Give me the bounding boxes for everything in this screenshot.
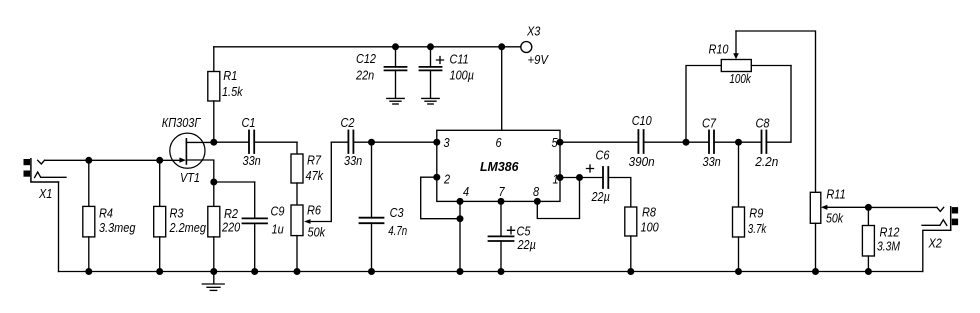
svg-text:C10: C10 [632, 113, 653, 128]
svg-text:2: 2 [443, 171, 451, 186]
node R4 top [85, 157, 92, 164]
node rail R4 [85, 268, 92, 275]
bottom ground rail [59, 271, 923, 273]
node rail R12 [865, 268, 872, 275]
svg-text:КП303Г: КП303Г [162, 115, 201, 130]
svg-text:R12: R12 [880, 224, 901, 239]
svg-text:22µ: 22µ [591, 189, 610, 204]
svg-text:33n: 33n [703, 154, 721, 169]
node C3 top [368, 139, 375, 146]
node rail R11 [812, 268, 819, 275]
svg-text:3.3meg: 3.3meg [99, 220, 136, 235]
node rail pin7 [498, 268, 505, 275]
svg-text:1u: 1u [272, 222, 284, 237]
svg-text:C7: C7 [702, 115, 717, 130]
node source [210, 179, 217, 186]
capacitor C6 [580, 165, 631, 207]
resistor R1 [208, 47, 220, 142]
node rail R9 [735, 268, 742, 275]
pin 7 [498, 198, 505, 205]
ground C11 [422, 98, 439, 104]
node R11 wiper [865, 204, 872, 211]
capacitor C1 [214, 131, 297, 154]
svg-text:6: 6 [496, 135, 503, 150]
capacitor C11 [420, 47, 444, 98]
potentiometer R11 [810, 192, 868, 271]
wire pin7 down [500, 201, 502, 236]
svg-text:R9: R9 [749, 205, 763, 220]
svg-text:5: 5 [552, 135, 559, 150]
potentiometer R10 [686, 31, 816, 192]
resistor R4 [83, 160, 95, 271]
potentiometer R6 [291, 142, 331, 271]
node B [735, 139, 742, 146]
connector X3 [521, 42, 532, 53]
capacitor C2 [331, 131, 437, 154]
node C12 top [392, 43, 399, 50]
transistor VT1 [170, 133, 214, 182]
resistor R9 [733, 142, 745, 271]
svg-text:R8: R8 [642, 205, 657, 220]
svg-text:1.5k: 1.5k [222, 84, 244, 99]
svg-text:R4: R4 [99, 206, 113, 221]
node rail R3 [156, 268, 163, 275]
node pin4/pin2 join [457, 215, 464, 222]
svg-text:C12: C12 [356, 51, 377, 66]
node C11 top [427, 43, 434, 50]
svg-text:220: 220 [221, 220, 241, 235]
capacitor C7 [686, 131, 739, 154]
svg-text:33n: 33n [243, 153, 261, 168]
svg-text:7: 7 [499, 184, 506, 199]
svg-text:R7: R7 [307, 153, 322, 168]
svg-text:2.2meg: 2.2meg [169, 220, 207, 235]
capacitor C3 [360, 142, 384, 271]
op-amp U1 LM386 [437, 130, 560, 201]
capacitor C8 [739, 66, 792, 154]
capacitor C12 [385, 47, 407, 98]
resistor R7 [291, 142, 303, 205]
wire pin6 riser [501, 47, 503, 131]
wire X1 ground riser [58, 182, 60, 272]
node rail R8 [627, 268, 634, 275]
svg-text:3.3M: 3.3M [877, 238, 900, 253]
svg-text:+9V: +9V [528, 52, 550, 67]
wire pin4 down [459, 201, 461, 271]
node C6 left [576, 174, 583, 181]
svg-text:1: 1 [553, 171, 559, 186]
capacitor C9 [243, 182, 268, 272]
connector X2 [868, 207, 958, 272]
svg-text:LM386: LM386 [480, 159, 519, 174]
svg-text:390n: 390n [629, 154, 655, 169]
svg-text:4.7n: 4.7n [388, 223, 407, 238]
capacitor C10 [560, 130, 686, 153]
svg-text:R10: R10 [709, 42, 730, 57]
pin 5 [557, 139, 564, 146]
wire pin1 [560, 177, 580, 179]
svg-text:R11: R11 [826, 187, 845, 202]
svg-text:C2: C2 [341, 115, 356, 130]
svg-text:8: 8 [533, 184, 540, 199]
svg-text:33n: 33n [344, 153, 362, 168]
svg-text:22n: 22n [355, 68, 374, 83]
svg-text:R6: R6 [307, 202, 322, 217]
node rail C3 [368, 268, 375, 275]
svg-text:3.7k: 3.7k [748, 221, 768, 236]
ground main [202, 272, 224, 291]
node rail R6 [294, 268, 301, 275]
svg-text:100µ: 100µ [450, 68, 475, 83]
svg-text:X1: X1 [38, 186, 52, 201]
resistor R8 [625, 207, 637, 272]
svg-text:50k: 50k [308, 224, 327, 239]
svg-text:4: 4 [463, 184, 469, 199]
svg-text:VT1: VT1 [180, 170, 200, 185]
pin 3 [433, 139, 440, 146]
svg-text:X3: X3 [526, 23, 541, 38]
svg-text:C11: C11 [450, 52, 469, 67]
svg-text:C1: C1 [242, 115, 256, 130]
node drain [210, 139, 217, 146]
svg-text:2.2n: 2.2n [754, 154, 778, 169]
resistor R12 [862, 207, 874, 271]
connector X1 [24, 159, 67, 182]
wire source to C9 [214, 181, 255, 183]
node pin6 riser [498, 43, 505, 50]
node A [683, 139, 690, 146]
svg-text:C8: C8 [756, 115, 771, 130]
ground C12 [387, 98, 404, 104]
svg-text:C3: C3 [390, 205, 405, 220]
node R3 top [156, 157, 163, 164]
wire pin8 loop [537, 178, 579, 219]
svg-text:C6: C6 [596, 148, 611, 163]
resistor R3 [154, 160, 166, 271]
svg-text:100k: 100k [729, 71, 752, 86]
pin 2 [433, 174, 440, 181]
svg-text:47k: 47k [306, 168, 325, 183]
svg-text:R1: R1 [223, 68, 237, 83]
pin 8 [534, 198, 541, 205]
pin 1 [557, 174, 564, 181]
wire pin2 loop [421, 177, 460, 219]
resistor R2 [208, 182, 220, 272]
svg-text:X2: X2 [928, 236, 943, 251]
svg-text:C9: C9 [271, 203, 285, 218]
node rail pin4 [457, 268, 464, 275]
pin 4 [457, 198, 464, 205]
svg-text:R3: R3 [170, 206, 185, 221]
svg-text:50k: 50k [826, 210, 844, 225]
node rail R2 [210, 268, 217, 275]
svg-text:3: 3 [444, 135, 451, 150]
node rail C9 [251, 268, 258, 275]
svg-text:100: 100 [641, 219, 660, 234]
capacitor C5 [489, 227, 515, 272]
wire input (gate) [45, 159, 180, 161]
svg-text:22µ: 22µ [517, 237, 536, 252]
top power rail [214, 46, 521, 48]
